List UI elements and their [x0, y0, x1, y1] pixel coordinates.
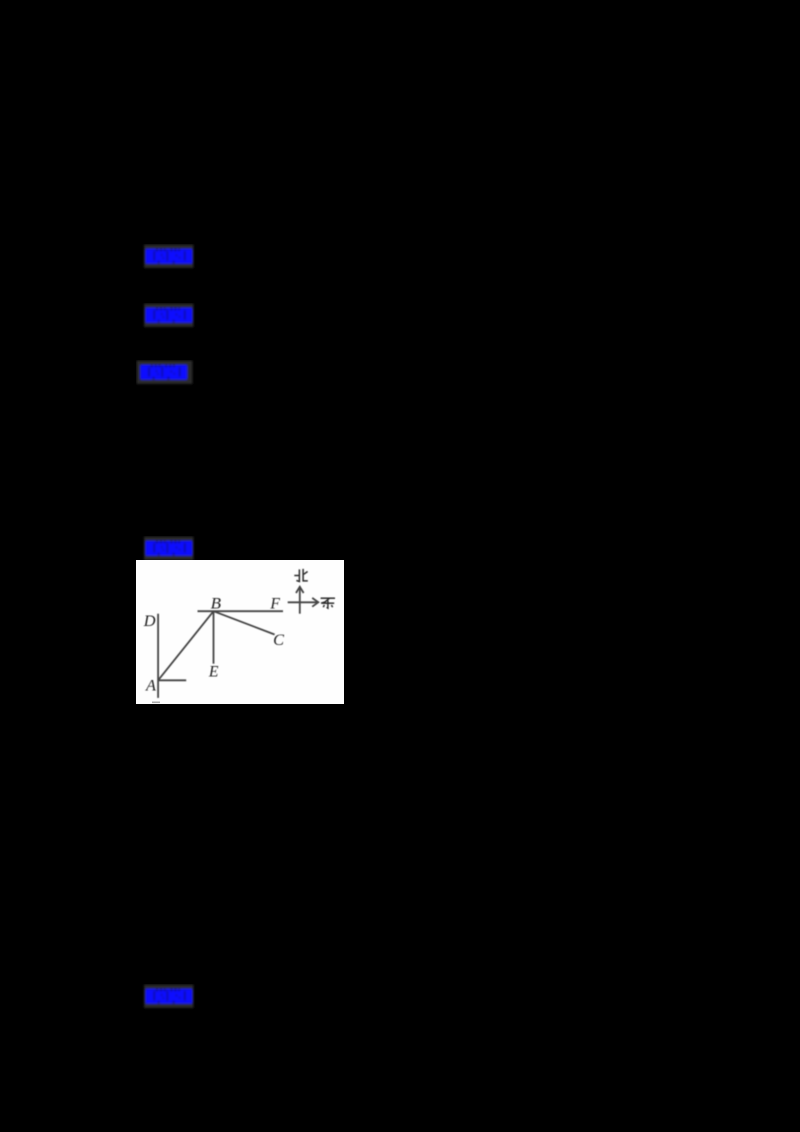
svg-text:A: A: [145, 675, 156, 694]
svg-text:C: C: [273, 630, 285, 649]
line B-C: [214, 611, 275, 634]
line A horizontal: [158, 679, 186, 681]
line B-F: [198, 610, 284, 612]
svg-text:D: D: [143, 611, 156, 630]
char bei (north): [294, 569, 308, 582]
line A-D vertical: [157, 614, 159, 698]
geometry figure: [136, 560, 344, 704]
svg-text:B: B: [211, 594, 221, 613]
smudge below A vertical: [152, 702, 160, 704]
label dianping: [141, 984, 199, 1012]
line A-B: [159, 611, 214, 680]
char dong (east): [321, 598, 335, 608]
svg-text:F: F: [269, 594, 281, 613]
label zhuanti: [141, 303, 199, 331]
compass horizontal arrow (east): [288, 601, 318, 603]
label fenxi: [136, 360, 194, 388]
compass vertical arrow (north): [299, 587, 301, 614]
svg-text:E: E: [208, 662, 219, 681]
label jieda: [141, 536, 199, 564]
label kaodian: [141, 244, 199, 272]
line B-E vertical: [213, 611, 215, 664]
